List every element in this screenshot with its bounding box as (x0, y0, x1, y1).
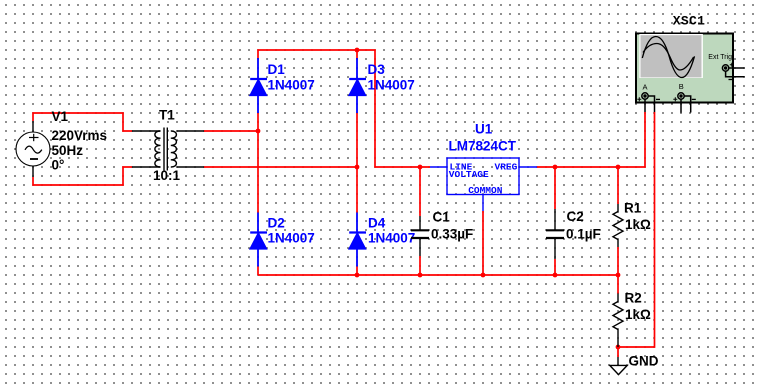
svg-text:1kΩ: 1kΩ (625, 307, 651, 322)
svg-text:R1: R1 (624, 201, 642, 216)
svg-text:1N4007: 1N4007 (368, 231, 415, 246)
svg-text:220Vrms: 220Vrms (52, 128, 108, 143)
ground (610, 357, 627, 375)
wire R2 top (617, 275, 619, 294)
core line right (166, 128, 168, 171)
wire T1 secondary top to node D1-D2 (204, 130, 258, 132)
svg-text:C1: C1 (433, 210, 451, 225)
svg-text:T1: T1 (159, 108, 175, 123)
primary top pin (132, 130, 161, 132)
svg-text:Ext Trig: Ext Trig (708, 54, 732, 61)
wire C1 bottom (419, 256, 421, 275)
primary winding (155, 131, 161, 167)
ext trig pin wires (726, 68, 745, 77)
junction node C2 bottom (553, 273, 558, 278)
junction node R1 top (616, 165, 621, 170)
oscilloscope XSC1 body (636, 34, 745, 113)
scope trace channel B (643, 44, 694, 71)
ext trig minus mark (729, 79, 733, 81)
wire scope A minus down to ground node (618, 112, 655, 347)
B pin wires (681, 96, 691, 113)
scope screen frame (639, 34, 703, 78)
secondary winding (171, 131, 177, 167)
wire D2 anode to bottom rail (257, 267, 259, 276)
junction node C1 bottom (418, 273, 423, 278)
wire R1 top (617, 167, 619, 204)
scope screen (641, 35, 702, 77)
wire U1 common to bottom rail (482, 211, 484, 275)
wire C2 top (554, 167, 556, 209)
wire R2 bottom stub to ground node (617, 347, 619, 357)
svg-text:1N4007: 1N4007 (268, 231, 315, 246)
transformer T1 (132, 128, 204, 171)
resistor R1 (613, 204, 623, 247)
junction node D4 bottom rail (355, 273, 360, 278)
svg-text:A: A (643, 82, 648, 91)
diode D2 (250, 213, 267, 267)
A pin wires (645, 96, 655, 112)
svg-text:D4: D4 (368, 216, 386, 231)
terminal B (678, 93, 684, 99)
svg-text:C2: C2 (567, 209, 584, 224)
junction node top rail D3 (355, 48, 360, 53)
junction node T1/D3-D4 (355, 165, 360, 170)
scope trace channel A (642, 37, 694, 78)
wire V1 top to T1 primary top (33, 113, 132, 131)
svg-text:B: B (679, 82, 684, 91)
terminal Ext Trig (722, 65, 728, 71)
svg-text:D1: D1 (268, 62, 286, 77)
wire C2 bottom (554, 259, 556, 275)
wire R1 bottom (617, 247, 619, 275)
svg-text:1kΩ: 1kΩ (625, 217, 651, 232)
svg-text:LM7824CT: LM7824CT (449, 139, 517, 154)
secondary top pin (177, 130, 205, 132)
primary bottom pin (132, 166, 161, 168)
voltage regulator U1 (430, 158, 537, 211)
svg-text:D3: D3 (368, 62, 386, 77)
svg-text:VOLTAGE: VOLTAGE (449, 169, 489, 180)
svg-text:50Hz: 50Hz (52, 143, 84, 158)
wire D1-D2 branch mid (257, 113, 259, 213)
diode D4 (349, 213, 366, 267)
svg-text:0.33µF: 0.33µF (431, 226, 473, 241)
svg-text:0°: 0° (52, 157, 65, 172)
junction node R2/GND/scope A minus (616, 345, 621, 350)
ext trig plus mark (730, 63, 734, 67)
resistor R2 (613, 294, 623, 348)
svg-text:D2: D2 (268, 216, 285, 231)
B minus mark (692, 98, 696, 100)
A minus mark (656, 98, 660, 100)
wire top rail from D1 cathode over D3 down to U1 input (258, 50, 430, 167)
wire D3 top lead (356, 50, 358, 59)
core line left (163, 128, 165, 171)
AC source V1 (16, 121, 50, 177)
svg-text:0.1µF: 0.1µF (566, 226, 601, 241)
diode D1 (250, 58, 267, 113)
secondary bottom pin (177, 166, 205, 168)
junction node C2 top (553, 165, 558, 170)
capacitor C2 (546, 209, 564, 259)
svg-text:1N4007: 1N4007 (268, 77, 315, 92)
wire T1 secondary bottom to node D3-D4 (204, 166, 357, 168)
wire U1 output rail to scope A plus (537, 112, 645, 167)
A plus mark (637, 97, 641, 101)
svg-text:1N4007: 1N4007 (368, 77, 415, 92)
B plus mark (673, 97, 677, 101)
svg-text:V1: V1 (52, 109, 69, 124)
svg-text:10:1: 10:1 (153, 168, 181, 183)
svg-text:XSC1: XSC1 (673, 14, 705, 29)
junction node R1/R2 (616, 273, 621, 278)
wire bottom rail (258, 274, 618, 276)
diode D3 (349, 58, 366, 113)
svg-text:COMMON: COMMON (468, 185, 503, 196)
capacitor C1 (411, 216, 429, 256)
svg-text:U1: U1 (475, 122, 493, 137)
wire C1 top (419, 167, 421, 216)
terminal A (642, 93, 648, 99)
wire D4 anode to bottom rail (356, 267, 358, 276)
wire D3-D4 branch mid (356, 113, 358, 213)
wire V1 bottom to T1 primary bottom (33, 167, 132, 185)
svg-text:GND: GND (629, 354, 659, 369)
junction node T1/D1-D2 (256, 129, 261, 134)
svg-text:R2: R2 (625, 291, 642, 306)
junction node U1 common bottom (481, 273, 486, 278)
junction node C1 top (418, 165, 423, 170)
svg-text:VREG: VREG (495, 162, 518, 173)
